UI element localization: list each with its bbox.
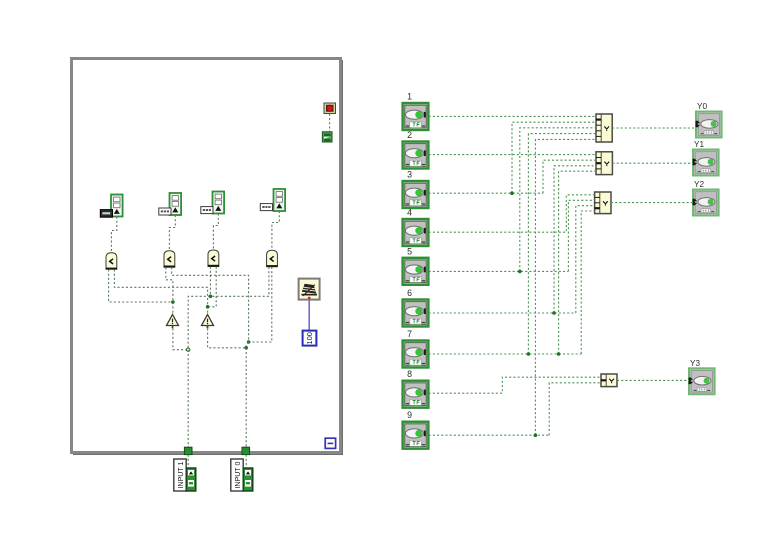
wait-ms metronome icon (299, 279, 320, 300)
junction dot switch3 (510, 191, 514, 195)
wire A1 left output down-right to T1 input junction (109, 269, 173, 302)
switch 2 (boolean pushbutton) (403, 142, 429, 169)
wire A4 right output down to H342 (249, 267, 272, 342)
wire slider S4 to comparator A4 (272, 211, 279, 250)
wire switch5 riser to U1 in3 (520, 128, 596, 272)
switch 5 (boolean pushbutton) (403, 258, 429, 285)
wire slider S1 to comparator A1 (111, 217, 116, 253)
OR gate U3 (4-input, Y2) (595, 192, 611, 214)
wire switch4 to U3 in1 (429, 195, 595, 232)
wire A1 right output down-right to T2 input (114, 269, 207, 314)
indicator Y1 (boolean LED) (693, 150, 719, 176)
wire A4 left output down to H296 (268, 267, 270, 296)
comparator A3 (less-than) (208, 250, 219, 267)
wire A3 left output down to bus H296 (209, 267, 211, 297)
svg-text:Y1: Y1 (694, 140, 704, 149)
wire slider S3 to comparator A3 (213, 214, 218, 251)
junction dot switch6 (552, 311, 556, 315)
junction dot switch5 (518, 270, 522, 274)
loop iteration terminal (325, 438, 335, 448)
wire T2 output to INPUT0 riser (208, 328, 247, 347)
svg-text:8: 8 (407, 369, 412, 379)
label for slider S1 (100, 210, 112, 218)
constant 100 (303, 331, 317, 346)
junction dot switch7 b (557, 352, 561, 356)
indicator Y0 (boolean LED) (696, 112, 722, 138)
wire tunnel to INPUT1 terminal (187, 455, 189, 468)
wire metronome to 100 constant (308, 300, 310, 331)
comparator A2 (less-than) (164, 251, 175, 268)
junction dot T1 input (171, 300, 175, 304)
wire switch5 riser to U3 in2 (568, 200, 594, 271)
label for slider S2 (159, 208, 171, 215)
switch 9 (boolean pushbutton) (403, 422, 429, 449)
tunnel INPUT0 (242, 447, 250, 454)
slider control S2 (170, 193, 182, 215)
svg-text:1: 1 (407, 92, 412, 102)
slider control S4 (274, 189, 286, 211)
svg-text:6: 6 (407, 288, 412, 298)
wire A2 right output to riser x248 (172, 267, 249, 342)
wire switch7 riser to U3 in4 (581, 211, 594, 354)
bus wire H296 to INPUT1 riser (188, 296, 269, 349)
switch 3 (boolean pushbutton) (403, 181, 429, 208)
OR gate U4 (2-input, Y3) (601, 374, 617, 387)
OR gate U1 (5-input, Y0) (596, 114, 612, 142)
switch 6 (boolean pushbutton) (403, 300, 429, 327)
wire switch7 riser to U2 in4 (559, 171, 596, 354)
switch 4 (boolean pushbutton) (403, 219, 429, 246)
wire U4 output to Y3 (617, 379, 689, 381)
svg-text:INPUT 0: INPUT 0 (235, 461, 242, 488)
junction dot INPUT0 riser (244, 346, 248, 350)
slider control S3 (213, 192, 225, 214)
INPUT 0 terminal (231, 459, 253, 491)
wire U1 output to Y0 (612, 127, 696, 129)
svg-text:Y0: Y0 (697, 102, 707, 111)
comparator A1 (less-than) (106, 253, 117, 270)
svg-text:100: 100 (305, 332, 314, 345)
switch 8 (boolean pushbutton) (403, 381, 429, 408)
tunnel INPUT1 (184, 447, 192, 454)
wire switch6 riser to U2 in3 (554, 166, 596, 313)
svg-text:7: 7 (407, 329, 412, 339)
wire switch9 riser to U4 in2 (549, 383, 601, 435)
NOT triangle T2 (202, 315, 214, 329)
wire switch6 riser to U3 in3 (576, 206, 595, 313)
switch 7 (boolean pushbutton) (403, 341, 429, 368)
slider control S1 (111, 195, 123, 217)
junction dot switch9 (534, 433, 538, 437)
svg-text:9: 9 (407, 410, 412, 420)
wire stop button to loop condition (329, 114, 331, 132)
wire switch3 horizontal (429, 192, 543, 194)
wire switch9 horizontal (429, 434, 550, 436)
junction dot INPUT1 riser (187, 348, 190, 351)
junction dot T2 input upper (209, 295, 213, 299)
wire A3 right output jog to T2 input (208, 267, 217, 307)
indicator Y2 (boolean LED) (693, 190, 719, 216)
svg-text:5: 5 (407, 246, 412, 256)
svg-text:3: 3 (407, 170, 412, 180)
wire switch3 riser to U2 in2 (543, 160, 596, 193)
indicator Y3 (boolean LED) (689, 368, 715, 394)
INPUT 1 terminal (174, 459, 196, 491)
svg-text:Y2: Y2 (694, 180, 704, 189)
wire A2 left output jog to T1 input (166, 267, 173, 314)
OR gate U2 (4-input, Y1) (596, 152, 612, 175)
wire tunnel to INPUT0 terminal (245, 455, 247, 468)
stop button B_STOP (324, 103, 336, 114)
svg-text:4: 4 (407, 208, 412, 218)
wire switch7 riser to U1 in4 (528, 134, 596, 354)
wire switch7 horizontal (429, 353, 582, 355)
svg-text:INPUT 1: INPUT 1 (178, 461, 185, 488)
label for slider S3 (201, 207, 213, 214)
junction dot switch7 a (527, 352, 531, 356)
wire switch1 to U1 in1 (429, 115, 596, 117)
wire INPUT1 riser down to tunnel (187, 350, 189, 447)
wire switch5 horizontal (429, 270, 569, 272)
wire switch9 riser to U1 in5 (535, 139, 596, 435)
svg-text:2: 2 (407, 130, 412, 140)
wire switch2 to U2 in1 (429, 154, 596, 156)
wire slider S2 to comparator A2 (169, 215, 175, 251)
wire switch3 riser to U1 in2 (512, 122, 596, 193)
wire INPUT0 riser down to tunnel (245, 348, 247, 447)
switch 1 (boolean pushbutton) (403, 103, 429, 130)
svg-text:Y3: Y3 (690, 359, 700, 368)
junction dot riser x248 (247, 340, 251, 344)
junction dot T2 input lower (206, 305, 210, 309)
wire T1 output to INPUT1 riser (173, 328, 188, 349)
NOT triangle T1 (167, 315, 179, 329)
wire switch6 horizontal (429, 312, 576, 314)
wire U3 output to Y2 (611, 202, 693, 204)
label for slider S4 (260, 204, 272, 211)
while-loop frame (72, 59, 341, 453)
wire jog to INPUT0 riser (246, 342, 248, 348)
wire U2 output to Y1 (612, 162, 693, 164)
loop condition terminal (322, 132, 332, 142)
comparator A4 (less-than) (266, 250, 277, 267)
wire switch8 to U4 in1 (429, 377, 601, 393)
